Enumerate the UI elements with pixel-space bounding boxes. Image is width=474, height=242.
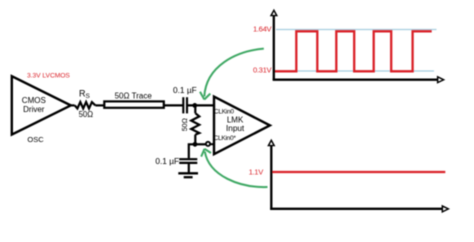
bottom graph x-axis xyxy=(270,208,443,210)
green arrow bottom (to CLKin0* node) xyxy=(205,152,268,188)
top graph x-axis xyxy=(273,79,440,81)
dc level 1.1V signal (red) xyxy=(272,171,445,173)
svg-text:50Ω: 50Ω xyxy=(79,110,94,119)
wire driver to R1 xyxy=(69,104,75,106)
svg-text:1.64V: 1.64V xyxy=(253,24,273,33)
op-amp U2 LMK input triangle xyxy=(214,97,270,155)
open circle pin CLKin0* xyxy=(206,142,210,146)
wire trace to C1 xyxy=(164,104,183,106)
svg-text:CLKin0*: CLKin0* xyxy=(214,135,237,142)
capacitor C1 0.1uF series xyxy=(182,97,184,113)
wire R2 to bottom node xyxy=(194,135,196,145)
square wave signal (red) xyxy=(275,31,432,71)
svg-text:0.31V: 0.31V xyxy=(253,65,273,74)
reference line 1.64V (blue) xyxy=(276,29,437,31)
wire node to CLKin0* pin xyxy=(195,143,206,145)
top graph y-axis xyxy=(273,14,275,80)
bottom graph y-axis xyxy=(270,144,272,210)
svg-text:Driver: Driver xyxy=(23,105,45,114)
svg-text:0.1 µF: 0.1 µF xyxy=(155,156,179,166)
svg-text:Input: Input xyxy=(226,124,245,133)
svg-text:OSC: OSC xyxy=(27,135,44,144)
svg-text:CLKin0: CLKin0 xyxy=(214,109,234,116)
wire node jog to C2 xyxy=(189,144,195,158)
svg-text:1.1V: 1.1V xyxy=(249,168,265,177)
transmission line 50ohm trace xyxy=(104,101,164,107)
svg-text:0.1 µF: 0.1 µF xyxy=(173,85,197,95)
svg-text:3.3V LVCMOS: 3.3V LVCMOS xyxy=(27,73,70,80)
wire R1 to trace xyxy=(95,104,105,106)
svg-text:50Ω Trace: 50Ω Trace xyxy=(115,92,153,101)
wire down from node xyxy=(194,105,196,113)
op-amp U1 CMOS driver triangle xyxy=(12,76,71,134)
resistor R2 50 ohm shunt (vertical) xyxy=(191,113,199,134)
wire C1 to LMK input xyxy=(187,104,213,106)
resistor R1 (Rs 50 ohm) xyxy=(75,102,96,108)
svg-text:50Ω: 50Ω xyxy=(182,118,189,131)
green arrow top (to coupling node) xyxy=(204,49,263,97)
node junction dot bottom xyxy=(193,142,198,147)
ground xyxy=(178,172,198,174)
svg-text:CMOS: CMOS xyxy=(22,96,46,105)
wire C2 to ground xyxy=(188,163,190,173)
node junction dot top xyxy=(192,103,197,108)
reference line 0.31V (blue) xyxy=(276,70,434,72)
capacitor C2 0.1uF shunt xyxy=(179,158,197,160)
